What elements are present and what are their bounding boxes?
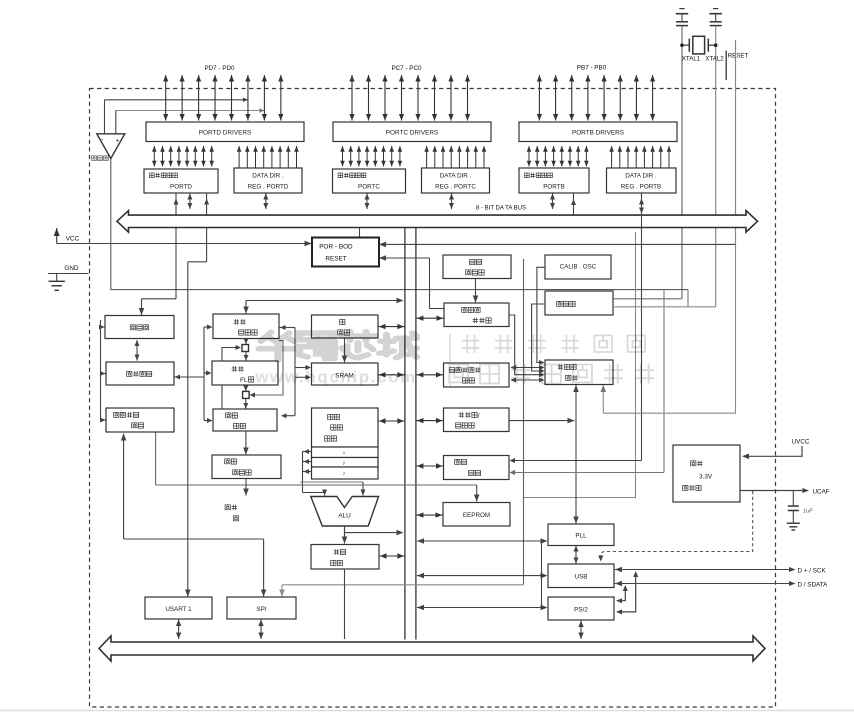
svg-text:/: / (478, 413, 480, 420)
svg-text:ALU: ALU (338, 513, 351, 520)
svg-text:3.3V: 3.3V (699, 474, 713, 481)
svg-text:SPI: SPI (256, 606, 266, 613)
svg-text:UCAF: UCAF (813, 488, 830, 495)
svg-text:RESET: RESET (325, 256, 346, 263)
svg-text:VCC: VCC (66, 236, 80, 243)
svg-text:PORTD DRIVERS: PORTD DRIVERS (199, 130, 251, 137)
svg-text:REG . PORTD: REG . PORTD (248, 184, 289, 191)
svg-text:www.hqchip.com: www.hqchip.com (254, 368, 417, 387)
svg-text:FL: FL (240, 377, 248, 384)
svg-text:PORTC: PORTC (358, 184, 380, 191)
svg-text:UVCC: UVCC (792, 439, 810, 446)
svg-text:PC7 - PC0: PC7 - PC0 (391, 65, 422, 72)
svg-text:8 - BIT DA TA BUS: 8 - BIT DA TA BUS (476, 206, 526, 212)
svg-text:DATA DIR .: DATA DIR . (440, 173, 472, 180)
svg-text:z: z (343, 471, 345, 476)
svg-text:+: + (116, 138, 120, 145)
svg-text:POR - BOD: POR - BOD (319, 244, 353, 251)
svg-text:D + / SCK: D + / SCK (798, 567, 827, 574)
svg-text:GND: GND (64, 265, 79, 272)
svg-text:PD7 - PD0: PD7 - PD0 (204, 65, 235, 72)
svg-text:PS/2: PS/2 (574, 607, 588, 614)
svg-text:PORTD: PORTD (170, 184, 192, 191)
svg-text:REG . PORTB: REG . PORTB (621, 184, 661, 191)
svg-text:PB7 - PB0: PB7 - PB0 (577, 65, 607, 72)
svg-text:D / SDATA: D / SDATA (798, 581, 829, 588)
svg-text:USART 1: USART 1 (165, 606, 192, 613)
svg-text:PORTC DRIVERS: PORTC DRIVERS (386, 130, 438, 137)
svg-text:DATA DIR .: DATA DIR . (625, 173, 657, 180)
svg-text:1uF: 1uF (803, 509, 813, 515)
svg-text:EEPROM: EEPROM (463, 512, 490, 519)
svg-text:PORTB DRIVERS: PORTB DRIVERS (572, 130, 624, 137)
svg-text:PORTB: PORTB (543, 184, 565, 191)
svg-text:REG . PORTC: REG . PORTC (435, 184, 476, 191)
svg-text:XTAL1: XTAL1 (682, 56, 701, 63)
svg-text:XTAL2: XTAL2 (705, 56, 724, 63)
svg-text:RESET: RESET (728, 53, 749, 60)
svg-text:DATA DIR .: DATA DIR . (252, 173, 284, 180)
svg-text:CALIB . OSC: CALIB . OSC (560, 264, 597, 271)
svg-text:PLL: PLL (575, 533, 587, 540)
svg-text:USB: USB (575, 574, 588, 581)
